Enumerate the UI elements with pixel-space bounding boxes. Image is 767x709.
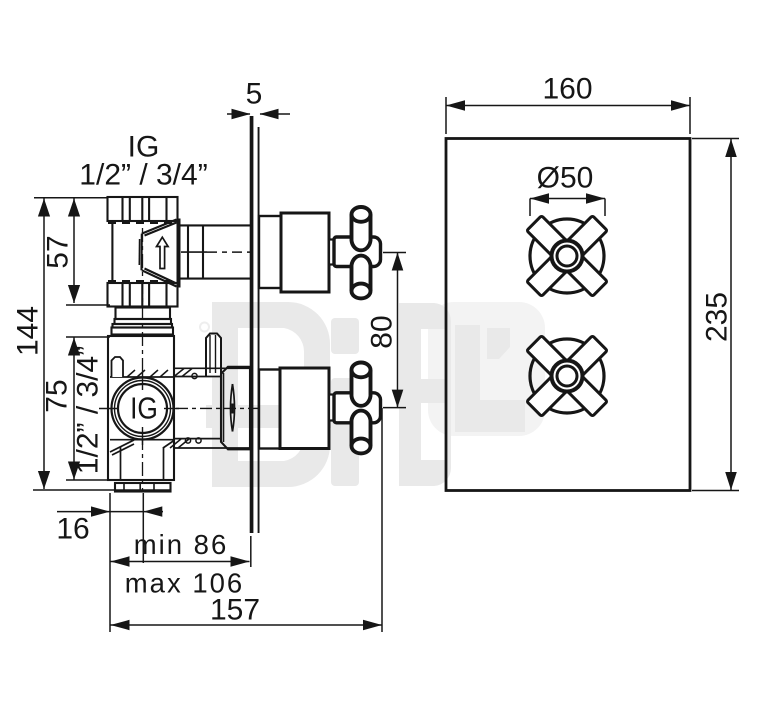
dim min86 arrows <box>111 556 130 566</box>
connector ring 3 <box>113 324 173 328</box>
right bottom wing lines <box>174 439 250 448</box>
IG circle outer <box>112 378 174 440</box>
ext line 80 top <box>383 252 406 254</box>
ext line 80 bottom <box>383 407 406 409</box>
svg-text:57: 57 <box>42 235 75 268</box>
upper stem <box>329 240 334 265</box>
ext O50 left <box>529 199 531 217</box>
ext 160 right <box>689 97 691 134</box>
dim 75 line <box>73 338 75 480</box>
right tall pin <box>206 334 221 377</box>
wall plate side view thin line <box>258 127 260 533</box>
ext line handle right vertical <box>381 408 383 632</box>
upper hub <box>334 237 381 267</box>
pipe mid line <box>181 251 207 253</box>
wing beads <box>185 438 190 443</box>
pipe vertical line A <box>187 225 189 279</box>
right top wing hatches <box>174 369 192 377</box>
outlet block <box>221 367 250 450</box>
top ledge line <box>110 376 173 378</box>
upper cartridge <box>281 213 329 292</box>
upper ring inner <box>557 246 577 266</box>
funnel left edge <box>140 234 142 271</box>
upper handle bar <box>352 207 371 298</box>
funnel left edge inner <box>138 239 140 265</box>
ext line 75 top <box>66 336 110 338</box>
lower handle bar <box>352 363 371 454</box>
funnel bottom slant <box>142 269 177 287</box>
ext line left vertical <box>109 493 111 632</box>
ext line 57 bottom <box>66 304 110 306</box>
outlet left edge inner <box>223 373 225 442</box>
pipe centerline <box>207 251 250 253</box>
circle tick right <box>164 408 179 410</box>
pipe to plate bottom edge <box>179 278 250 280</box>
left lower diagonals <box>110 440 134 455</box>
ext O50 right <box>604 199 606 217</box>
watermark letter B <box>399 303 451 486</box>
upper ring outer <box>552 241 583 272</box>
watermark letter i stem <box>331 378 359 486</box>
watermark letter L foot <box>455 400 525 432</box>
right top wing bead <box>192 373 197 378</box>
ext line plate bottom <box>250 536 252 567</box>
lower cross handle front <box>527 336 608 417</box>
dim 160 line <box>446 105 690 107</box>
ext line 144 bottom <box>33 489 171 491</box>
ext 235 bottom <box>692 490 739 492</box>
upper cross handle front <box>527 216 608 297</box>
connector ring 4 <box>112 328 174 335</box>
upper flange ribs <box>121 197 123 221</box>
IG circle middle <box>115 381 171 437</box>
bottom right chamfer <box>163 441 174 449</box>
lower cartridge <box>280 368 329 449</box>
watermark letter D ring <box>212 302 330 487</box>
svg-text:Ø50: Ø50 <box>537 162 594 195</box>
upper body top flange <box>108 197 178 221</box>
upper body bottom flange <box>108 283 178 307</box>
dim 235 arrows <box>725 139 737 157</box>
dim 16 arrows <box>91 506 110 516</box>
lower flange ribs <box>121 283 123 307</box>
svg-text:1/2” / 3/4”: 1/2” / 3/4” <box>72 346 105 474</box>
watermark DiBL logo <box>200 302 545 487</box>
wall plate side view thick line <box>250 116 254 533</box>
upper knob circle <box>530 219 604 293</box>
lower cross bar 2 <box>527 336 608 417</box>
dimension 5 arrow left <box>232 109 251 119</box>
dim 157 line <box>111 624 383 626</box>
ext line 75 bottom <box>66 479 108 481</box>
dim 16 line <box>57 511 163 513</box>
svg-text:80: 80 <box>366 315 399 348</box>
lower hub <box>334 393 381 423</box>
valve vertical centerline <box>142 228 144 491</box>
right top wing lines <box>174 368 250 376</box>
ext line 16 right vertical <box>142 493 144 563</box>
dim 80 arrows <box>392 253 404 271</box>
watermark letter L stem <box>455 325 480 430</box>
upper flange thread dashes <box>108 222 177 225</box>
bottom ledge line <box>110 439 173 441</box>
left pin <box>112 357 124 377</box>
lower ring inner <box>557 366 577 386</box>
lower escutcheon <box>259 370 280 449</box>
dim 57 line <box>73 199 75 304</box>
dim O50 arrows <box>530 193 549 203</box>
outlet lens right <box>233 384 235 432</box>
bottom connector nubs <box>124 483 154 492</box>
IG circle inner <box>118 384 167 433</box>
dim 157 arrows <box>111 620 130 630</box>
circle tick left <box>99 408 119 410</box>
upper escutcheon <box>259 216 281 288</box>
bottom connector band <box>115 483 171 492</box>
arrows 144 <box>38 199 50 217</box>
front plate rect <box>446 139 690 491</box>
svg-text:160: 160 <box>542 73 592 106</box>
dimension 5 line right <box>260 113 290 115</box>
ext line top <box>34 197 107 199</box>
svg-text:144: 144 <box>12 306 45 356</box>
upper cross bar 2 <box>527 216 608 297</box>
dim 160 arrows <box>446 100 465 110</box>
dim O50 line <box>530 198 605 200</box>
upper body left edge <box>111 221 113 281</box>
watermark faint blob <box>428 302 545 436</box>
dim 144 line <box>43 199 45 490</box>
svg-text:16: 16 <box>56 513 89 546</box>
arrows 75 <box>68 338 80 356</box>
outlet centerline <box>176 407 262 409</box>
lower knob circle <box>530 339 604 413</box>
svg-text:75: 75 <box>41 379 74 412</box>
lower cross bar 1 <box>527 336 608 417</box>
lower stem <box>329 395 334 421</box>
right bottom wing hatches <box>170 439 189 448</box>
right pin inner lines <box>210 335 216 373</box>
pipe vertical line B <box>202 225 204 279</box>
outlet lens left <box>231 384 233 432</box>
ext 160 left <box>445 97 447 134</box>
svg-text:5: 5 <box>246 78 263 111</box>
ext 235 top <box>692 138 739 140</box>
funnel right thick edge <box>177 219 181 288</box>
arrows 57 <box>68 199 80 217</box>
circle tick bottom <box>142 427 144 445</box>
svg-text:min 86: min 86 <box>134 529 229 560</box>
connector ring 1 <box>116 308 171 320</box>
top ledge hatches <box>127 370 168 377</box>
svg-text:157: 157 <box>210 594 260 627</box>
flow arrow outline <box>157 237 169 268</box>
circle tick top <box>142 372 144 390</box>
dimension 5 line left <box>227 113 250 115</box>
upper cross bar 1 <box>527 216 608 297</box>
svg-text:IG: IG <box>130 392 158 426</box>
dimension 5 arrow right <box>260 109 279 119</box>
connector ring 2 <box>115 319 172 324</box>
funnel top slant <box>142 220 177 236</box>
lower valve body <box>99 334 262 492</box>
lower flange thread dashes <box>108 280 177 283</box>
watermark letter D middle bar <box>206 405 332 428</box>
dim 235 line <box>730 139 732 490</box>
watermark apostrophe <box>487 328 510 359</box>
watermark letter i dot <box>331 318 359 354</box>
svg-text:1/2” / 3/4”: 1/2” / 3/4” <box>79 159 207 192</box>
pipe to plate top edge <box>179 224 250 226</box>
lower ring outer <box>552 361 583 392</box>
watermark registered mark <box>200 323 209 332</box>
lower body main block <box>108 336 174 480</box>
inner verticals below <box>121 447 164 480</box>
upper valve body <box>108 197 251 491</box>
svg-text:235: 235 <box>701 292 734 342</box>
dim min86 line <box>111 561 250 563</box>
dim 80 line <box>397 253 399 408</box>
outlet lens waist tick <box>231 404 234 414</box>
